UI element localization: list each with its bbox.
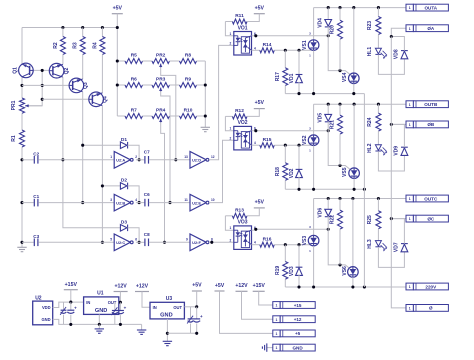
wire VD8 to phase node <box>391 37 404 51</box>
inverter U2:C <box>114 234 130 251</box>
svg-text:+5V: +5V <box>255 5 265 11</box>
wire U2:D output to VO1 <box>209 45 234 159</box>
wire phase A connector link <box>391 28 406 36</box>
connector GND <box>273 344 280 351</box>
wire R11 to pin1 <box>225 22 233 36</box>
svg-text:+5V: +5V <box>255 200 265 206</box>
resistor R20 <box>339 8 341 21</box>
svg-text:VD5: VD5 <box>318 113 324 123</box>
wire C8 to right gate <box>149 241 190 243</box>
svg-text:11: 11 <box>184 198 188 202</box>
svg-text:VS4: VS4 <box>342 72 348 82</box>
diode VD5 <box>327 104 329 114</box>
wire D2 anode line <box>102 185 120 187</box>
svg-text:+5: +5 <box>295 331 301 336</box>
svg-text:R8: R8 <box>185 53 191 59</box>
diode D1 <box>120 142 127 149</box>
wire VO2 pin6 line <box>252 130 254 132</box>
svg-text:PR1: PR1 <box>11 100 17 110</box>
wire VO1 pin6 line <box>252 35 254 37</box>
IC U3 regulator 5V <box>150 302 184 319</box>
wire Q3 base line <box>22 84 69 86</box>
svg-text:4: 4 <box>254 141 256 145</box>
svg-text:OUT: OUT <box>173 305 182 310</box>
svg-text:OUTC: OUTC <box>424 196 438 201</box>
svg-text:4: 4 <box>254 241 256 245</box>
resistor R8 <box>170 60 180 62</box>
resistor R10 <box>170 115 180 117</box>
svg-text:+15V: +15V <box>65 282 78 288</box>
svg-text:R10: R10 <box>184 108 193 114</box>
connector phase neutral <box>406 305 413 312</box>
svg-text:VS3: VS3 <box>302 236 308 246</box>
capacitor C8 <box>144 239 146 247</box>
svg-text:U3: U3 <box>166 296 173 302</box>
svg-text:10: 10 <box>211 198 215 202</box>
svg-text:1: 1 <box>409 123 411 127</box>
thyristor VS2 <box>313 104 315 135</box>
svg-text:U2:E: U2:E <box>192 200 201 205</box>
svg-text:1: 1 <box>276 346 278 350</box>
LED HL2 <box>375 145 381 151</box>
svg-text:1: 1 <box>230 226 232 230</box>
svg-text:VD6: VD6 <box>318 208 324 218</box>
svg-text:+5V: +5V <box>255 100 265 106</box>
svg-text:U2: U2 <box>35 295 42 301</box>
connector OUTA <box>406 4 413 11</box>
svg-text:R3: R3 <box>73 42 79 49</box>
wire R8-R10 ground column <box>204 61 206 127</box>
resistor R21 <box>339 104 341 115</box>
LED HL3 <box>375 241 381 247</box>
svg-text:VS1: VS1 <box>302 40 308 50</box>
svg-text:+12V: +12V <box>136 284 149 290</box>
svg-text:R13: R13 <box>235 207 244 213</box>
svg-text:1: 1 <box>409 197 411 201</box>
wire HL2 bottom loop <box>378 151 404 171</box>
resistor R12 <box>225 115 232 117</box>
capacitor C2 <box>22 159 34 161</box>
svg-text:D3: D3 <box>121 219 127 225</box>
svg-text:R15: R15 <box>263 137 272 143</box>
svg-text:VO3: VO3 <box>238 220 248 226</box>
svg-text:R25: R25 <box>367 215 373 224</box>
svg-text:5: 5 <box>110 238 112 242</box>
svg-text:R18: R18 <box>275 167 281 176</box>
wire PR4 wiper <box>161 122 165 242</box>
transistor Q4 <box>89 92 104 107</box>
svg-text:+: + <box>124 306 127 311</box>
wire D2 cathode drop <box>128 186 140 203</box>
svg-text:4: 4 <box>135 198 137 202</box>
capacitor C6 <box>144 199 146 207</box>
resistor R14 <box>252 49 260 51</box>
svg-text:+12V: +12V <box>235 283 248 289</box>
ground R8 column <box>201 126 210 128</box>
wire U3 GND stem <box>166 319 168 341</box>
connector ØB <box>406 121 413 128</box>
svg-text:VD9: VD9 <box>393 146 399 156</box>
wire U2:E output to VO2 <box>209 140 234 202</box>
wire U1 OUT <box>119 301 121 303</box>
svg-text:Q4: Q4 <box>103 96 109 103</box>
svg-text:VS2: VS2 <box>302 135 308 145</box>
svg-text:C1: C1 <box>33 194 39 199</box>
wire Q4 base line <box>42 98 89 100</box>
svg-text:HL3: HL3 <box>367 239 373 249</box>
ground U3 <box>163 340 172 342</box>
thyristor VS1 <box>313 8 315 40</box>
svg-text:U2:D: U2:D <box>192 158 201 163</box>
svg-text:4: 4 <box>254 46 256 50</box>
transistor Q1 <box>19 63 34 78</box>
wire U2 GND to bus <box>53 319 142 324</box>
wire Q1-Q2 base link <box>33 69 49 71</box>
svg-text:VDD: VDD <box>42 305 51 310</box>
junction dots top rail <box>61 26 64 29</box>
wire U2:C output <box>136 241 145 243</box>
svg-text:1: 1 <box>276 318 278 322</box>
potentiometer PR2 <box>152 59 170 64</box>
svg-text:R21: R21 <box>329 120 335 129</box>
connector ØC <box>406 215 413 222</box>
svg-text:R2: R2 <box>53 42 59 49</box>
svg-text:PR2: PR2 <box>156 53 166 59</box>
svg-text:+12: +12 <box>294 317 302 322</box>
resistor R22 <box>339 199 341 211</box>
resistor R6 <box>125 83 143 88</box>
resistor R3 <box>82 28 84 37</box>
inverter U2:D <box>190 152 206 169</box>
wire anode rail OUTC <box>314 198 406 200</box>
svg-text:1: 1 <box>409 217 411 221</box>
svg-text:2: 2 <box>135 155 137 159</box>
diode VD6 <box>327 199 329 210</box>
connector +5 <box>273 330 280 337</box>
wire R12 to pin1 <box>225 116 233 130</box>
svg-text:R12: R12 <box>235 108 244 114</box>
svg-text:VD3: VD3 <box>289 266 295 276</box>
svg-text:OUTB: OUTB <box>424 102 438 107</box>
svg-text:Q1: Q1 <box>13 67 19 74</box>
svg-text:12: 12 <box>211 155 215 159</box>
svg-text:U2:C: U2:C <box>116 240 125 245</box>
svg-text:C2: C2 <box>33 151 39 156</box>
wire PR3 wiper <box>161 91 170 202</box>
wire cathode rail VS3 <box>285 286 406 288</box>
svg-text:R4: R4 <box>92 42 98 49</box>
svg-text:1: 1 <box>230 127 232 131</box>
svg-text:Q2: Q2 <box>64 67 70 74</box>
connector ØA <box>406 25 413 32</box>
ground left column <box>17 246 26 248</box>
inverter U2:E <box>190 194 206 211</box>
wire Q3 emitter column <box>82 92 84 203</box>
thyristor VS4 <box>353 8 355 73</box>
svg-text:+5V: +5V <box>215 283 225 289</box>
diode VD8 <box>401 50 408 52</box>
svg-text:+12V: +12V <box>114 284 127 290</box>
diode VD9 <box>401 146 408 148</box>
svg-text:Ø: Ø <box>429 306 433 311</box>
svg-text:R14: R14 <box>263 42 272 48</box>
svg-text:U2:B: U2:B <box>116 200 125 205</box>
svg-text:D2: D2 <box>121 178 127 184</box>
junction dots left column <box>20 84 23 87</box>
resistor R5 <box>125 59 143 64</box>
svg-text:3: 3 <box>110 198 112 202</box>
svg-text:IN: IN <box>86 300 90 305</box>
wire HL1 bottom loop <box>378 55 404 75</box>
wire base bus riser <box>25 70 42 105</box>
wire anode rail OUTA <box>314 7 406 9</box>
svg-text:Q3: Q3 <box>83 82 89 89</box>
wire phase ØB connector link <box>391 123 406 125</box>
wire cathode rail VS2 <box>285 188 364 190</box>
wire C6 to right gate <box>149 202 190 204</box>
connector OUTC <box>406 195 413 202</box>
wire +15V to connector <box>259 291 273 305</box>
svg-text:C8: C8 <box>144 232 150 237</box>
connector OUTB <box>406 101 413 108</box>
svg-text:1: 1 <box>230 32 232 36</box>
wire D1 anode line <box>83 144 121 146</box>
svg-text:VD7: VD7 <box>393 242 399 252</box>
wire U2 VDD to U1 <box>53 302 84 307</box>
svg-text:R11: R11 <box>235 13 244 19</box>
svg-text:+: + <box>200 314 203 319</box>
wire D1 cathode drop <box>128 145 140 160</box>
resistor R13 <box>225 215 232 217</box>
svg-text:2: 2 <box>230 41 232 45</box>
svg-text:IN: IN <box>153 305 157 310</box>
svg-text:220V: 220V <box>425 284 437 289</box>
connector +15 <box>273 302 280 309</box>
svg-text:1: 1 <box>409 103 411 107</box>
ground U1 <box>98 324 100 329</box>
resistor R25 <box>377 199 379 211</box>
svg-text:R20: R20 <box>329 25 335 34</box>
thyristor VS3 <box>313 199 315 236</box>
optocoupler VO3 <box>234 226 252 250</box>
wire +12V to U3 IN <box>142 292 150 308</box>
svg-text:GND: GND <box>95 308 107 314</box>
svg-text:D1: D1 <box>121 137 127 143</box>
svg-text:+15: +15 <box>294 303 302 308</box>
wire R13 to pin1 <box>225 216 233 230</box>
wire neutral column <box>391 37 406 308</box>
wire VO3 pin6 line <box>252 229 254 231</box>
svg-text:R1: R1 <box>11 135 17 142</box>
svg-text:2: 2 <box>230 136 232 140</box>
capacitor input pair <box>63 302 65 310</box>
wire VD9 to phase node <box>391 124 404 147</box>
resistor R9 <box>170 84 180 86</box>
svg-text:GND: GND <box>41 317 50 322</box>
capacitor C1 <box>22 202 34 204</box>
wire +12V riser and caps <box>119 292 121 303</box>
svg-text:R6: R6 <box>131 77 137 83</box>
svg-text:PR4: PR4 <box>156 108 166 114</box>
svg-text:R23: R23 <box>367 21 373 30</box>
inverter U2:A <box>114 152 130 169</box>
wire Q4 emitter column <box>101 106 103 243</box>
resistor R17 <box>284 50 286 68</box>
optocoupler VO2 <box>234 126 252 149</box>
svg-text:VS6: VS6 <box>342 266 348 276</box>
svg-text:9: 9 <box>186 238 188 242</box>
svg-text:ØA: ØA <box>427 26 435 31</box>
svg-text:ØC: ØC <box>427 216 435 221</box>
wire U3 bus <box>167 332 196 334</box>
capacitor C3 <box>22 241 34 243</box>
svg-text:VO1: VO1 <box>238 25 248 31</box>
resistor R2 <box>62 28 64 37</box>
wire top-left rail <box>22 27 117 29</box>
resistor R11 <box>225 21 232 23</box>
svg-text:+15V: +15V <box>253 283 266 289</box>
resistor R4 <box>101 28 103 37</box>
wire U2:F output to VO3 <box>209 241 234 243</box>
svg-text:HL1: HL1 <box>367 47 373 57</box>
connector +12 <box>273 316 280 323</box>
svg-text:OUTA: OUTA <box>424 5 437 10</box>
svg-text:R17: R17 <box>275 72 281 81</box>
resistor R15 <box>252 144 260 146</box>
svg-text:R22: R22 <box>329 215 335 224</box>
svg-text:VO2: VO2 <box>238 120 248 126</box>
svg-text:1: 1 <box>409 27 411 31</box>
svg-text:C3: C3 <box>33 234 39 239</box>
svg-text:R19: R19 <box>275 266 281 275</box>
wire +5V riser and caps <box>196 291 198 307</box>
wire phase ØC connector link <box>391 218 406 220</box>
wire PR2 wiper <box>161 67 176 160</box>
svg-text:VD1: VD1 <box>289 73 295 83</box>
inverter U2:B <box>114 194 130 211</box>
potentiometer PR4 <box>152 114 170 119</box>
resistor R18 <box>284 145 286 163</box>
svg-text:+5V: +5V <box>113 5 123 11</box>
svg-text:1: 1 <box>409 307 411 311</box>
svg-text:+5V: +5V <box>192 283 202 289</box>
wire D3 cathode drop <box>128 228 140 243</box>
resistor R24 <box>377 104 379 113</box>
wire +5V feed column <box>116 14 118 116</box>
diode VD4 <box>327 8 329 20</box>
wire U2:A output <box>136 159 145 161</box>
wire +15V riser <box>70 290 72 302</box>
ground GND connector <box>267 347 273 349</box>
svg-text:HL2: HL2 <box>367 143 373 153</box>
svg-text:2: 2 <box>230 238 232 242</box>
LED HL1 <box>375 48 381 54</box>
thyristor VS6 <box>352 199 354 267</box>
svg-text:6: 6 <box>135 238 137 242</box>
svg-text:GND: GND <box>292 345 303 350</box>
wire anode rail OUTB <box>314 103 406 105</box>
wire VD7 to phase node <box>391 219 404 244</box>
wire C7 to right gate <box>149 159 190 161</box>
wire U3 OUT <box>184 306 196 308</box>
svg-text:OUT: OUT <box>108 300 117 305</box>
wire +12V to connector <box>242 291 273 319</box>
connector 220V <box>406 283 413 290</box>
junction dots emitter columns <box>81 144 84 147</box>
wire Q2 emitter column <box>63 77 121 228</box>
wire cathode rail VS1 <box>285 93 364 95</box>
svg-text:VD4: VD4 <box>318 18 324 28</box>
svg-text:U2:F: U2:F <box>192 240 201 245</box>
diode VD3 <box>298 245 300 268</box>
diode VD1 <box>298 50 300 74</box>
svg-text:PR3: PR3 <box>156 77 166 83</box>
svg-text:+: + <box>74 305 77 310</box>
svg-text:1: 1 <box>276 332 278 336</box>
resistor R16 <box>252 244 260 246</box>
svg-text:1: 1 <box>409 285 411 289</box>
diode VD7 <box>401 243 408 245</box>
diode D2 <box>120 183 127 190</box>
wire U2:B output <box>136 202 145 204</box>
resistor R1 <box>20 130 25 147</box>
svg-text:R16: R16 <box>263 236 272 242</box>
wire left column <box>21 28 23 65</box>
svg-text:1: 1 <box>276 304 278 308</box>
svg-text:R5: R5 <box>131 53 137 59</box>
wire HL3 bottom loop <box>378 247 404 267</box>
svg-text:C7: C7 <box>144 149 150 154</box>
capacitor C7 <box>144 156 146 164</box>
diode D3 <box>120 225 127 232</box>
wire U1 GND stub <box>98 314 100 324</box>
IC U1 regulator 12V <box>84 297 119 315</box>
svg-text:U2:A: U2:A <box>116 158 125 163</box>
svg-text:R24: R24 <box>367 117 373 126</box>
svg-text:VD2: VD2 <box>289 168 295 178</box>
potentiometer PR1 <box>20 98 25 113</box>
thyristor VS5 <box>353 104 355 168</box>
resistor R7 <box>125 114 143 119</box>
svg-text:GND: GND <box>160 312 172 318</box>
resistor R23 <box>377 8 379 17</box>
svg-text:1: 1 <box>409 6 411 10</box>
svg-text:R7: R7 <box>131 108 137 114</box>
svg-text:R9: R9 <box>185 77 191 83</box>
svg-text:13: 13 <box>184 155 188 159</box>
diode VD2 <box>298 145 300 169</box>
wire 220V cathode bus column <box>363 94 365 287</box>
inverter U2:F <box>190 234 206 251</box>
svg-text:VS5: VS5 <box>342 167 348 177</box>
resistor R19 <box>284 245 286 262</box>
svg-text:VD8: VD8 <box>393 49 399 59</box>
svg-text:ØB: ØB <box>427 122 435 127</box>
transistor Q2 <box>49 63 64 78</box>
IC U2 oscillator supply <box>33 301 53 325</box>
potentiometer PR3 <box>152 83 170 88</box>
svg-text:C6: C6 <box>144 192 150 197</box>
svg-text:1: 1 <box>110 155 112 159</box>
transistor Q3 <box>69 78 84 93</box>
optocoupler VO1 <box>234 32 252 56</box>
svg-text:U1: U1 <box>97 290 104 296</box>
ground bus end <box>141 324 143 330</box>
wire +5V to connector <box>220 291 273 333</box>
